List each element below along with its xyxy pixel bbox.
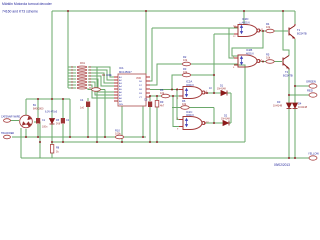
svg-text:10k: 10k: [266, 56, 271, 60]
title text: [2, 2, 53, 14]
wire R3 line right: [190, 74, 214, 76]
svg-text:74160 and KT3 scheme: 74160 and KT3 scheme: [2, 10, 38, 14]
zener diode D6: [50, 119, 55, 125]
svg-text:RN1: RN1: [80, 62, 86, 65]
wire array fan row6: [88, 82, 114, 95]
svg-text:1N4148: 1N4148: [298, 105, 308, 109]
resistor network pin dots: [71, 66, 90, 88]
capacitor C1: [36, 118, 40, 124]
wire x=152 vertical to IC pin81: [150, 28, 152, 81]
connector X2 track: [4, 135, 11, 139]
wire gate2 input1 feed x=229: [229, 28, 238, 58]
wire C5 top: [149, 96, 151, 101]
resistor R7: [92, 88, 101, 92]
wire RED connector feed: [289, 94, 309, 96]
NAND gate IC2C (gate4): [179, 117, 206, 130]
svg-text:RED: RED: [307, 89, 313, 93]
svg-text:1N4148: 1N4148: [273, 104, 283, 108]
wire R9 top stub: [156, 96, 158, 100]
wire Q1 collector supply x=295: [294, 11, 296, 24]
wire gate3 input2 net: [150, 95, 183, 97]
diode D2: [223, 121, 229, 126]
svg-text:IC2A: IC2A: [186, 80, 192, 84]
wire C4 bottom to bus1: [87, 107, 89, 137]
svg-text:D3: D3: [277, 100, 281, 104]
svg-text:VDD: VDD: [136, 77, 141, 80]
svg-text:10k: 10k: [183, 70, 188, 74]
diode D3: [287, 103, 292, 109]
wire R5 to Q2 base: [274, 61, 282, 63]
wire D2 cathode rise x=231: [230, 122, 232, 124]
resistor R6b below gate3: [181, 106, 189, 110]
svg-text:100n: 100n: [42, 126, 48, 129]
NAND gate IC2A (gate3): [179, 87, 206, 99]
wire +5V top rail H1: [52, 10, 295, 12]
svg-text:GREEN: GREEN: [306, 80, 316, 84]
wire D1-D2 cathode tie x=231: [230, 93, 232, 123]
svg-text:10k: 10k: [266, 25, 271, 29]
wire array fan row4: [88, 76, 114, 86]
svg-text:1N4148: 1N4148: [217, 88, 226, 91]
wire gate1 input net y=28: [152, 27, 238, 29]
wire array fan row3: [88, 73, 114, 83]
wire X1 to bridge: [10, 120, 19, 122]
wire GREEN connector feed: [295, 85, 309, 87]
resistor R2: [182, 62, 190, 66]
wire gate2 output to R5: [261, 61, 266, 63]
IC1 MC145027: [114, 66, 150, 106]
wire IC pin9 drop x=143: [142, 106, 144, 137]
wire bottom bus1 y=137: [12, 136, 146, 138]
resistor R3: [182, 73, 190, 77]
wire R9 bottom: [156, 107, 158, 142]
resistor R5: [266, 60, 274, 64]
capacitor C4: [86, 102, 90, 108]
gate pin-swap glyphs: [185, 26, 242, 127]
wire R8 chain x=52: [51, 142, 53, 158]
svg-text:C5: C5: [144, 98, 148, 102]
wire array fan row1: [88, 67, 114, 77]
wire Q2 collector supply x=283: [283, 11, 289, 56]
resistor R10 oval on bus1: [115, 135, 123, 139]
wire Q1 emitter down: [294, 39, 296, 158]
wire +5V drop to power section x=52: [51, 11, 53, 99]
svg-text:1N4148: 1N4148: [221, 118, 230, 121]
wire power rail y=99: [26, 98, 70, 100]
svg-text:MC145027: MC145027: [119, 70, 132, 74]
transistor Q1: [289, 24, 295, 39]
svg-text:10k: 10k: [182, 102, 187, 106]
wire R6b line to gate4 output: [172, 108, 214, 124]
svg-text:10k: 10k: [183, 58, 188, 62]
wire x=214 vertical D1 node to gate1 input2: [214, 34, 238, 93]
bridge rectifier B1: [20, 116, 31, 127]
resistor R9 vertical box: [155, 101, 159, 108]
svg-text:IC2B: IC2B: [246, 48, 252, 52]
wire resistor-array supply drop x=68: [67, 11, 69, 88]
wire R4 to Q1 base: [274, 30, 288, 32]
transistor Q2: [283, 56, 289, 70]
wire array fan row5: [88, 79, 114, 92]
wire IC pin85 to R2 and gate2 input2: [150, 64, 238, 85]
svg-text:5V6: 5V6: [56, 123, 61, 126]
svg-text:DIN: DIN: [119, 104, 123, 106]
wire IC VSS drop x=122: [121, 106, 123, 142]
resistor R4: [266, 29, 274, 33]
resistor R8 vertical box: [50, 145, 53, 154]
wire bridge minus drop x=21: [20, 128, 22, 158]
connector RED: [309, 93, 317, 97]
wire array row8 to R7: [88, 88, 105, 90]
resistor network left bus: [68, 67, 76, 88]
svg-text:100k: 100k: [106, 73, 112, 77]
wire x=97 long vertical: [96, 67, 98, 142]
wire bridge plus up: [25, 99, 27, 115]
svg-text:CATENARYWIRE: CATENARYWIRE: [1, 116, 20, 119]
svg-text:4011N: 4011N: [186, 113, 194, 117]
svg-text:4k7: 4k7: [160, 104, 165, 108]
svg-text:09/02/2013: 09/02/2013: [274, 163, 290, 167]
wire Q2 emitter down: [288, 70, 290, 159]
wire right end power rail down x=70: [69, 99, 71, 137]
connector YELLOW: [309, 156, 317, 160]
resistor network RN1 (8 resistors): [77, 66, 87, 89]
svg-text:IC1: IC1: [119, 66, 124, 70]
wire R3 left corner: [172, 75, 182, 90]
wire zener branch x=52: [51, 99, 53, 142]
svg-text:100k: 100k: [115, 132, 121, 136]
wire gate3 output to diode D1: [206, 92, 231, 94]
svg-text:6,3V 470x5: 6,3V 470x5: [45, 111, 58, 114]
svg-text:4011N: 4011N: [246, 52, 254, 56]
svg-text:YELLOW: YELLOW: [308, 152, 319, 156]
wire array fan row7: [88, 85, 114, 98]
svg-text:C4: C4: [80, 98, 84, 102]
NAND gate IC2D (gate1): [234, 25, 261, 37]
resistor R6: [161, 94, 169, 98]
wire C2 branch x=63: [62, 99, 64, 142]
wire bottom ground rail y=158: [21, 157, 309, 159]
wire x=105 drop to bus1: [104, 90, 106, 138]
wire bridge ac2 down: [25, 129, 27, 137]
wire gate4 output to diode D2: [206, 122, 231, 124]
svg-text:1n0: 1n0: [80, 107, 85, 110]
svg-text:D4: D4: [298, 102, 302, 106]
wire IC pin89 to gate3 input1: [150, 89, 183, 91]
svg-text:IC2D: IC2D: [242, 17, 248, 21]
svg-text:BC547B: BC547B: [297, 32, 307, 36]
NAND gate IC2B (gate2): [234, 55, 261, 67]
wire gate1 VDD pin drop x=244: [243, 11, 245, 24]
svg-text:TRACKRED: TRACKRED: [1, 132, 14, 135]
svg-text:Märklin Motorola turnout decod: Märklin Motorola turnout decoder: [2, 2, 53, 6]
svg-text:10k: 10k: [160, 91, 165, 95]
connector X1 overhead: [4, 119, 11, 123]
wire C5 bottom: [149, 107, 151, 142]
capacitor C2 electrolytic: [61, 118, 65, 124]
wire C4 top: [87, 98, 89, 101]
wire bridge minus to bottom: [34, 122, 40, 158]
svg-text:BC547B: BC547B: [283, 74, 293, 78]
wire gate4 input1 feed x=177: [177, 90, 183, 120]
wire gate1 output to R4: [261, 30, 266, 32]
wire array fan row2: [88, 70, 114, 80]
svg-text:B40C800: B40C800: [33, 108, 44, 111]
diode D4: [293, 103, 298, 109]
wire C1 branch x=38: [37, 99, 39, 137]
svg-text:R9: R9: [160, 100, 164, 104]
svg-text:4011N: 4011N: [242, 21, 250, 25]
wire gate4 input2 feed x=173: [173, 96, 183, 127]
capacitor C5: [148, 102, 152, 108]
wire bottom bus2 y=142 and riser to gate2 input2: [52, 65, 245, 142]
connector GREEN: [309, 84, 317, 88]
wire x=146 drop from H1 to IC VDD pin: [146, 11, 150, 77]
diode D1: [221, 91, 227, 96]
wire gate1 output cross-couple: [232, 31, 263, 56]
svg-text:4011N: 4011N: [186, 83, 194, 87]
